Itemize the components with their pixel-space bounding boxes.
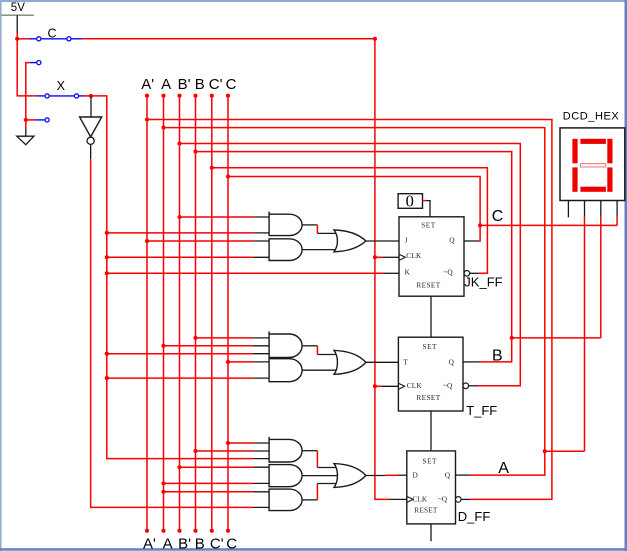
svg-text:CLK: CLK [406,251,422,260]
wire B' to AND6 input1 [180,466,270,468]
svg-text:C': C' [210,536,224,551]
wire stub AND5 input3 [253,458,269,460]
AND gate A3 (T term BAX) [269,331,302,357]
wire AND6 output to OR3 [302,475,340,477]
AND gate A5 (D term CBX) [269,437,302,462]
wire AND7 output jog to OR3 [302,484,337,500]
svg-text:T_FF: T_FF [466,403,497,418]
node C bus column [226,94,230,533]
node X junction 5 [105,376,109,380]
wire stub JK CLK [375,256,399,258]
pin T Q output [463,361,479,363]
svg-text:RESET: RESET [416,393,440,402]
wire stub AND1 input2 [253,232,269,234]
pin display 3 [600,201,602,217]
pin JK Q output [464,240,479,242]
OR gate O3 (D input) [334,464,366,488]
pin D Q output [456,474,471,476]
wire AND2 output to OR1 [302,249,339,251]
wire AND4 output to OR2 [302,369,339,371]
pin D ~Q output bubble [456,497,471,503]
node A' bus column [145,94,149,533]
wire net A : D_FF Q to bus A [164,128,545,476]
wire B to AND5 input2 [196,450,270,452]
pin T ~Q output bubble [463,383,478,389]
wire OR2 output to T pin [366,361,399,363]
wire AND3 output jog to OR2 [302,346,338,355]
wire clock net: switch C to FF clocks [82,39,391,500]
svg-text:X: X [57,79,66,93]
node clock junction at JK CLK [373,255,377,259]
svg-text:C: C [226,76,237,93]
flip-flop U2 T_FF [398,337,463,411]
flip-flop U3 D_FF [407,451,456,524]
node X junction 2 [105,255,109,259]
node A junction display branch [543,449,547,453]
wire net B : T_FF Q to bus B [196,152,512,362]
wire X branch to AND1 input2 [107,232,253,234]
node X junction 4 [105,352,109,356]
node X junction 1 [105,231,109,235]
svg-text:RESET: RESET [416,281,440,290]
node clock corner junction [373,37,377,41]
svg-text:D: D [413,470,418,479]
svg-text:JK_FF: JK_FF [464,275,502,290]
wire B' to AND1 input1 [180,216,270,218]
svg-text:J: J [405,236,408,245]
svg-text:SET: SET [423,456,438,465]
wire AND1 output jog to OR1 [302,225,338,234]
pin T RESET chain to D SET [430,411,432,451]
node junction at (163.5,345.8) [161,344,165,348]
wire stub AND3 input3 [253,353,269,355]
node C junction [226,174,230,178]
wire net X' from inverter to AND7 input2 [91,159,254,507]
wire X branch to AND3 input3 [107,353,253,355]
pin JK RESET chain to T SET [430,296,432,337]
switch X (SPDT, key X) [36,79,84,122]
wire C to AND5 input1 [228,442,269,444]
AND gate A7 (D term AX') [269,489,302,511]
wire ground net [26,63,36,137]
pin display 2 [584,201,586,217]
node 5V junction [15,37,19,41]
wire X branch to AND2 input2 [107,256,253,258]
svg-text:B': B' [178,76,191,93]
ground symbol [17,136,34,145]
node junction at (179.5,467.2) [177,465,181,469]
wire net A to display pin2 [545,217,585,451]
node junction at (195.5,451.0) [193,449,197,453]
svg-text:SET: SET [421,221,436,230]
svg-text:CLK: CLK [412,495,428,504]
wire A to AND3 input2 [164,345,270,347]
wire stub T CLK [375,385,399,387]
node A junction [161,126,165,130]
svg-text:~Q: ~Q [438,495,448,504]
node B junction display branch [510,336,514,340]
svg-text:C: C [226,536,237,551]
wire stub AND2 input2 [253,256,269,258]
wire net A' : D_FF ~Q to bus A' [147,120,552,500]
wire stub AND4 input2 [253,377,269,379]
AND gate A4 (T term CX) [269,359,302,382]
node junction at (179.5,217.0) [177,215,181,219]
wire A to AND6 input2 [164,482,270,484]
wire switch X output [84,95,91,97]
node junction at (228.0,361.9) [226,360,230,364]
svg-text:A': A' [141,76,154,93]
wire C to AND4 input1 [228,361,269,363]
svg-text:K: K [405,267,411,276]
logic constant 0 source [398,192,422,211]
svg-text:C: C [492,208,504,225]
node C' bus column [210,94,214,533]
node junction at (163.5,491.8) [161,490,165,494]
pin display 4 [616,201,618,217]
svg-text:Q: Q [449,358,455,367]
svg-text:CLK: CLK [407,381,423,390]
wire AND5 output jog to OR3 [302,451,337,468]
wire OR3 output to D pin [366,474,407,476]
node clock junction at T CLK [373,384,377,388]
OR gate O2 (T input) [334,350,366,374]
node B bus column [193,94,197,533]
node ground junction [24,118,28,122]
wire stub AND7 input2 [253,506,269,508]
inverter NOT gate [80,96,102,159]
node A bus column [161,94,165,533]
wire A to AND7 input1 [164,491,270,493]
node B' junction [177,141,181,145]
node junction at (228.0,443.0) [226,441,230,445]
OR gate O1 (J input) [334,230,366,252]
svg-text:RESET: RESET [414,506,438,515]
node X junction 3 [105,271,109,275]
wire net C : JK_FF Q to bus C [228,177,480,242]
wire 5V rail [17,33,37,96]
AND gate A2 (J term A'X) [269,239,302,261]
node A' junction [145,117,149,121]
wire net B to display pin3 [512,217,601,338]
wire net X distribution column [91,96,253,459]
svg-text:Q: Q [449,236,455,245]
wire net C to display pin4 [480,217,617,226]
svg-text:A: A [498,460,509,477]
pin D RESET dangling [430,524,432,541]
node C' junction [210,166,214,170]
svg-text:C': C' [209,76,223,93]
svg-text:SET: SET [423,342,438,351]
wire X branch to JK K input [107,272,399,274]
AND gate A1 (J term B'X) [269,212,302,236]
node junction at (195.5,337.9) [193,336,197,340]
seven segment display DCD_HEX [560,128,625,201]
svg-text:A: A [163,536,173,551]
svg-text:B': B' [178,536,191,551]
node X junction [89,94,93,98]
svg-text:Q: Q [445,471,451,480]
node B junction [193,150,197,154]
power source VCC 5V [2,2,34,33]
node junction at (147.0,241.0) [145,239,149,243]
svg-text:B: B [492,347,503,364]
svg-text:DCD_HEX: DCD_HEX [563,110,620,122]
wire net B' : T_FF ~Q to bus B' [180,144,521,386]
pin display 1 dangling [567,201,569,218]
pin JK ~Q output bubble [464,271,479,277]
flip-flop U1 JK_FF [399,217,464,296]
node junction at (163.5,483.4) [161,481,165,485]
svg-text:~Q: ~Q [443,267,453,276]
svg-text:D_FF: D_FF [458,509,491,524]
svg-text:B: B [195,76,205,93]
wire net C' : JK_FF ~Q to bus C' [212,168,488,273]
wire B to AND3 input1 [196,337,270,339]
svg-text:A': A' [143,536,156,551]
svg-text:5V: 5V [11,2,25,14]
svg-text:B: B [195,536,205,551]
node B' bus column [177,94,181,533]
svg-text:T: T [403,357,408,366]
svg-text:C: C [48,26,57,40]
AND gate A6 (D term B'A) [269,465,302,487]
svg-text:0: 0 [406,192,414,211]
wire X branch to AND4 input2 [107,377,253,379]
wire constant 0 to JK SET [423,201,431,217]
wire A' to AND2 input1 [147,240,269,242]
node C junction display branch [478,223,482,227]
wire stub D CLK [390,498,407,500]
svg-text:A: A [161,76,171,93]
svg-text:~Q: ~Q [443,381,453,390]
switch C (SPDT, key C) [29,26,82,64]
wire OR1 output to JK J pin [366,240,399,242]
